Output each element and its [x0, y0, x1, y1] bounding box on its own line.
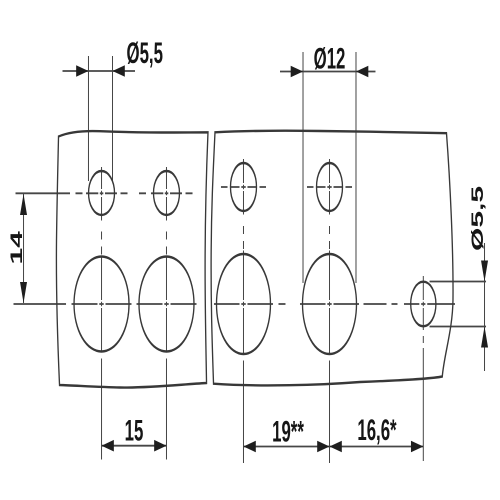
small hole A: [89, 171, 115, 215]
svg-text:16,6*: 16,6*: [357, 414, 397, 447]
centerline column A: [101, 167, 103, 460]
big hole A: [74, 257, 129, 352]
big hole B: [139, 257, 194, 352]
big hole C: [216, 254, 270, 354]
arrow 14 top pointing up: [20, 194, 27, 215]
dimension line dia 5,5 right: [484, 243, 486, 371]
svg-text:19**: 19**: [272, 416, 304, 449]
extension lines dia 5,5 right: [430, 282, 487, 327]
arrow 14 bottom pointing down: [20, 282, 27, 303]
right panel outline: [211, 131, 453, 386]
arrow dia5,5 left pointing right: [76, 65, 88, 77]
small hole E right: [411, 282, 436, 327]
extension lines dia 5,5 top left: [88, 56, 112, 181]
arrow 19 left pointing left: [243, 441, 255, 453]
dimension line 15 bottom left: [102, 445, 167, 447]
arrow dia12 right pointing left: [356, 66, 368, 78]
centerline row small hole D: [307, 186, 352, 188]
centerline column D: [329, 159, 331, 463]
centerline column B: [165, 167, 167, 460]
arrow 16,6 right pointing right: [411, 441, 423, 453]
centerline row big holes left panel: [13, 303, 196, 305]
arrow 16,6 left pointing left: [330, 441, 342, 453]
arrow dia5,5R top pointing down: [481, 261, 488, 282]
arrow 15 left pointing left: [102, 440, 114, 452]
big hole D: [303, 254, 357, 354]
dimension line dia 12 top right: [280, 71, 375, 73]
small hole D: [317, 163, 343, 211]
centerline row small holes left panel: [16, 192, 193, 194]
small hole C: [230, 163, 256, 211]
centerline column E: [422, 276, 424, 461]
small hole B: [153, 171, 179, 215]
dimension line dia 5,5 top left: [62, 70, 135, 72]
centerline row small hole C: [221, 186, 266, 188]
dimension line 14 left: [23, 194, 25, 303]
centerline row big holes right panel: [214, 303, 455, 305]
svg-text:Ø12: Ø12: [314, 43, 346, 76]
arrow 19 right pointing right: [317, 441, 329, 453]
svg-text:Ø5,5: Ø5,5: [469, 186, 488, 251]
svg-text:15: 15: [125, 414, 144, 447]
centerline column C: [242, 159, 244, 463]
svg-text:Ø5,5: Ø5,5: [127, 37, 163, 70]
extension lines dia 12 top right: [303, 52, 356, 283]
arrow 15 right pointing right: [154, 440, 166, 452]
arrow dia5,5R bottom pointing up: [481, 327, 488, 348]
svg-text:14: 14: [7, 231, 26, 265]
arrow dia12 left pointing right: [291, 66, 303, 78]
left panel outline: [56, 131, 208, 388]
arrow dia5,5 right pointing left: [113, 65, 125, 77]
dimension line 19 and 16,6 bottom right: [243, 446, 423, 448]
